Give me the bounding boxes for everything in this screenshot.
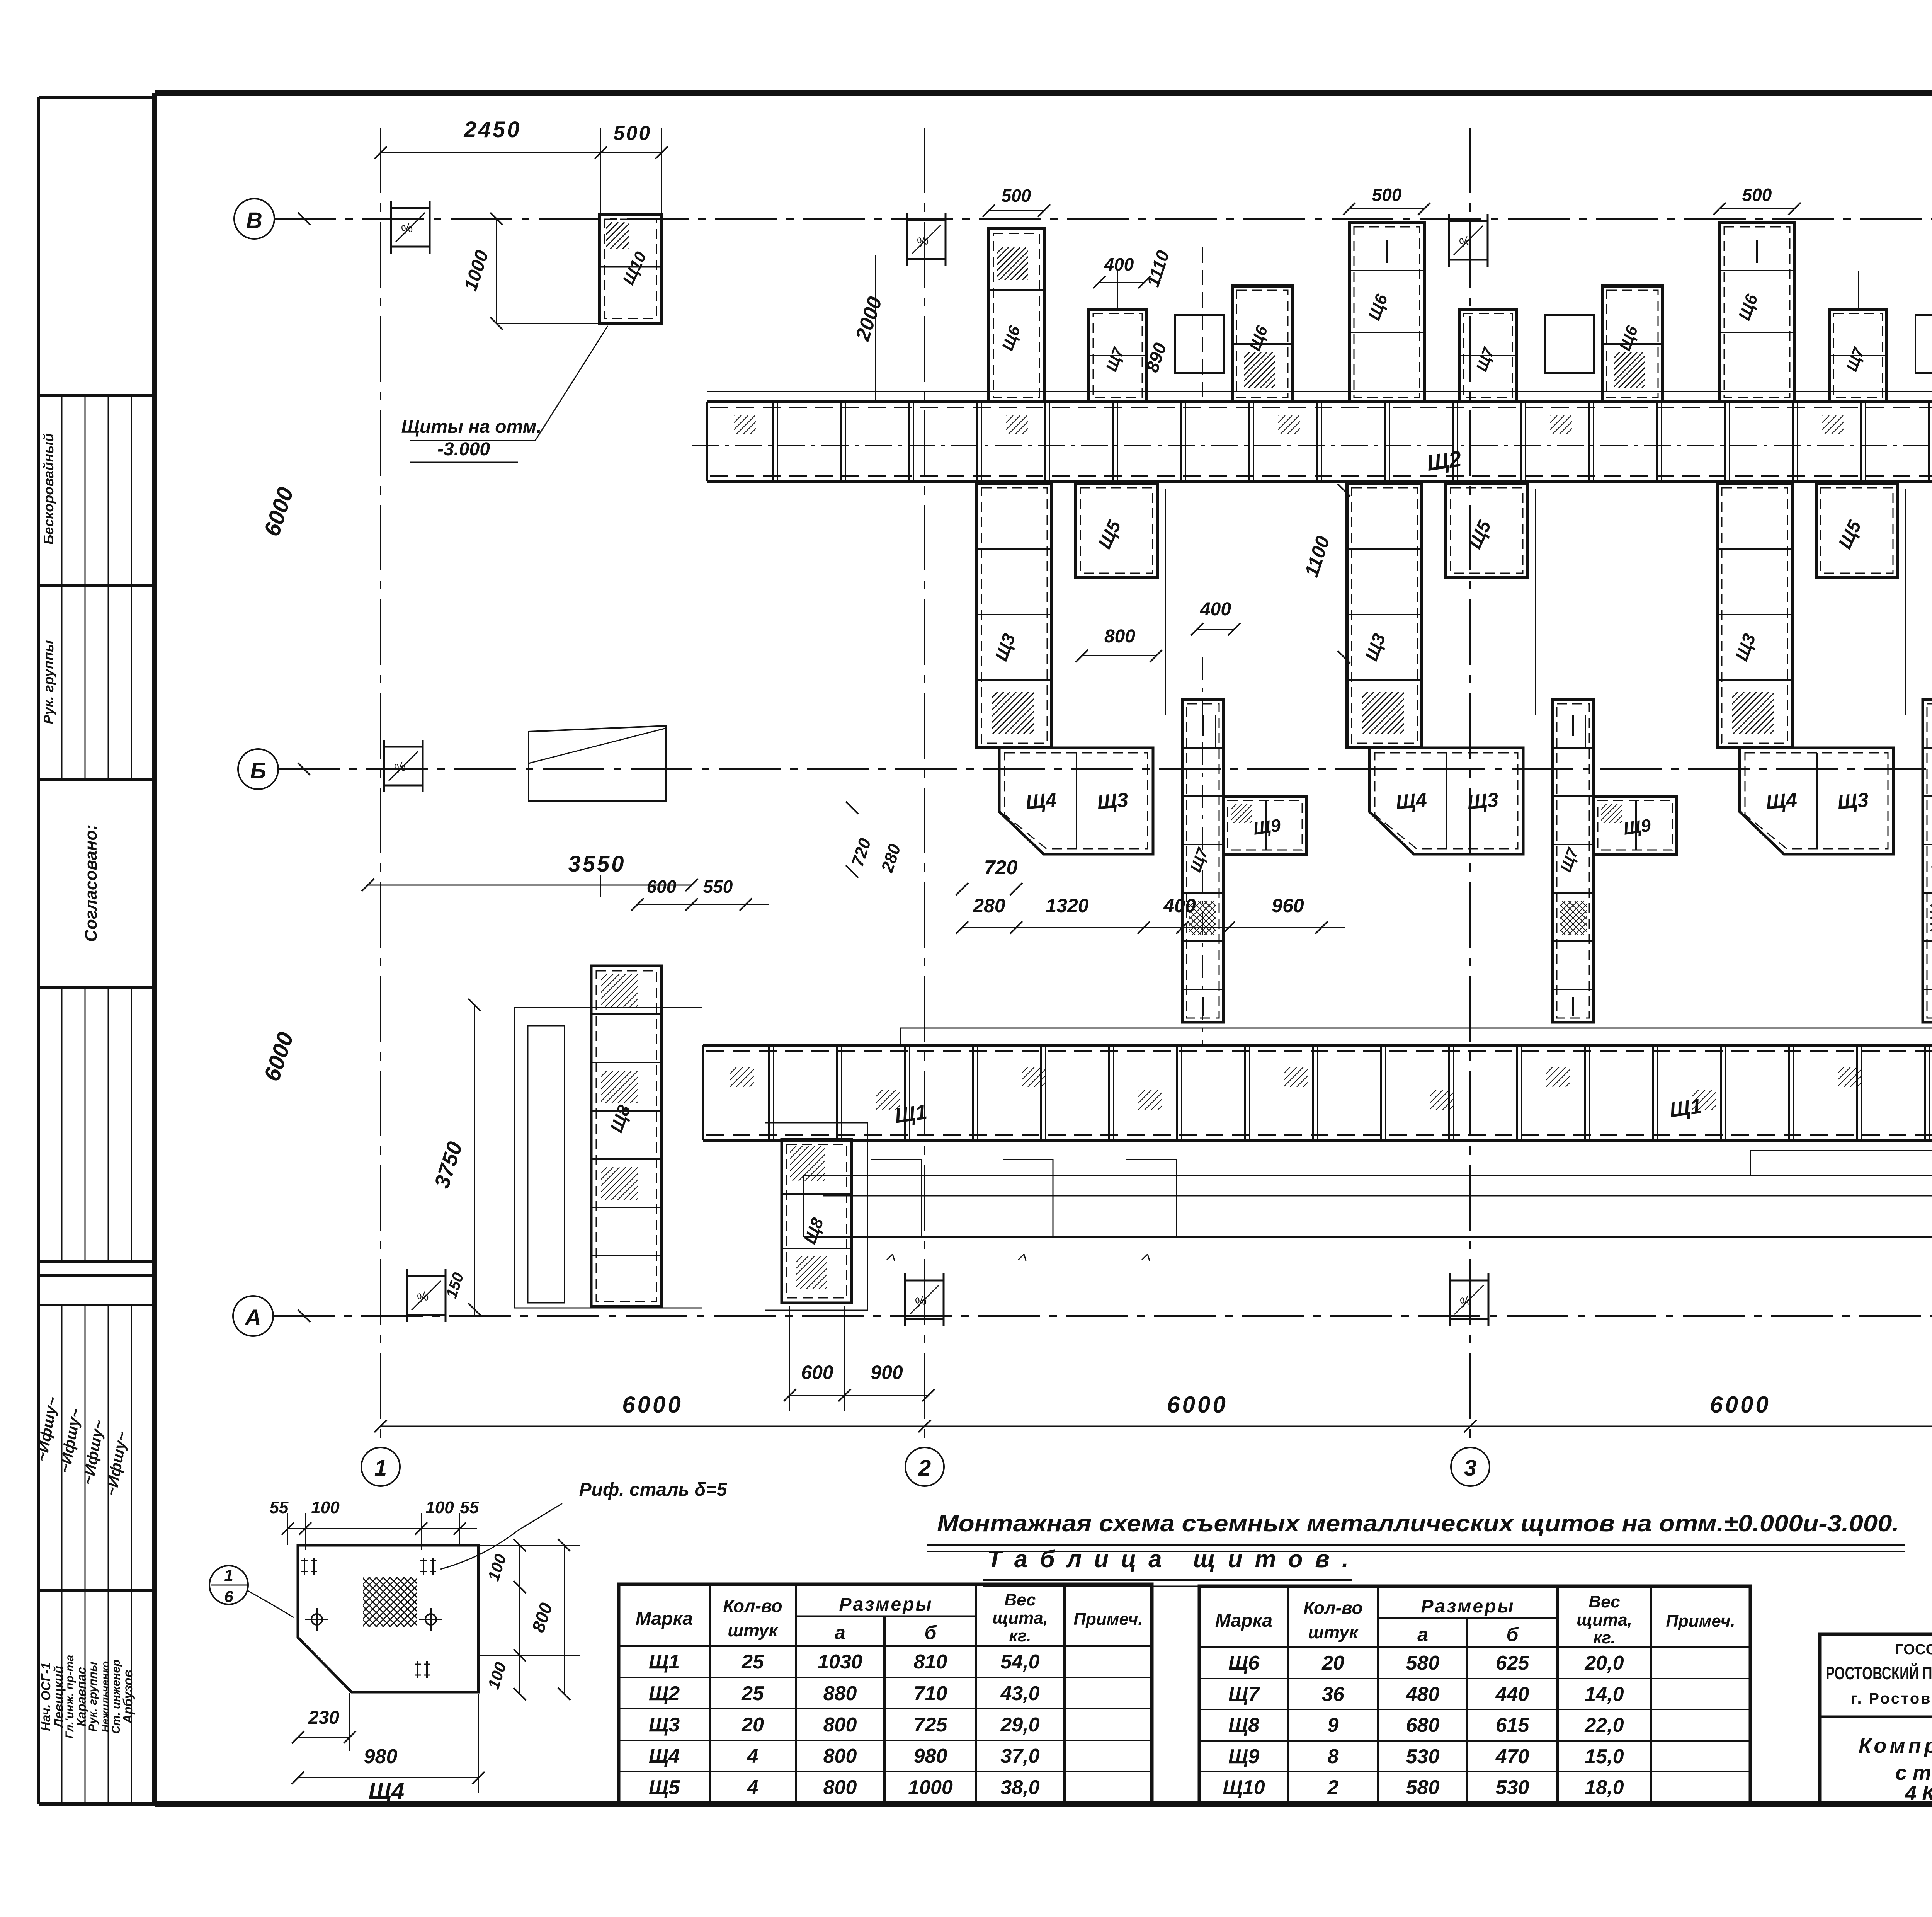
panel Щ7 top m3	[1829, 309, 1887, 402]
svg-text:18,0: 18,0	[1585, 1776, 1624, 1799]
svg-text:38,0: 38,0	[1000, 1776, 1039, 1799]
svg-text:Щ8: Щ8	[1228, 1714, 1259, 1737]
svg-text:6000: 6000	[1167, 1392, 1228, 1418]
svg-text:1000: 1000	[908, 1776, 953, 1799]
svg-text:Щ2: Щ2	[649, 1682, 680, 1705]
svg-text:980: 980	[914, 1745, 947, 1767]
svg-text:Примеч.: Примеч.	[1073, 1610, 1143, 1629]
svg-text:440: 440	[1495, 1683, 1529, 1706]
svg-text:Щ4: Щ4	[369, 1778, 405, 1804]
svg-text:Щ5: Щ5	[649, 1776, 680, 1799]
module 3: panel box Щ4/Щ3	[1740, 748, 1893, 854]
axis line B (top)	[274, 218, 1932, 220]
tall panel Щ6 m2	[1719, 222, 1794, 402]
svg-text:55: 55	[270, 1498, 289, 1517]
svg-text:20: 20	[741, 1714, 764, 1736]
svg-text:Щ1: Щ1	[1668, 1095, 1703, 1122]
svg-text:615: 615	[1496, 1714, 1530, 1737]
svg-text:Размеры: Размеры	[1421, 1596, 1515, 1617]
svg-text:500: 500	[1372, 185, 1402, 205]
svg-text:б: б	[1507, 1624, 1519, 1645]
panel Щ7 top m1	[1089, 309, 1146, 402]
panel band Щ1	[703, 1044, 1932, 1047]
column markers row Б	[384, 746, 423, 748]
svg-text:15,0: 15,0	[1585, 1745, 1624, 1768]
svg-text:800: 800	[823, 1776, 857, 1799]
svg-text:550: 550	[703, 877, 733, 897]
svg-text:штук: штук	[1308, 1622, 1359, 1642]
svg-text:Щ7: Щ7	[1228, 1683, 1260, 1706]
module 1: panel Щ9	[1223, 796, 1306, 854]
svg-text:530: 530	[1406, 1745, 1440, 1768]
svg-text:Щ4: Щ4	[1395, 789, 1428, 814]
svg-text:625: 625	[1496, 1652, 1530, 1674]
svg-text:29,0: 29,0	[1000, 1714, 1039, 1736]
axis circle А	[233, 1296, 273, 1336]
panel Щ6 m2	[1602, 286, 1662, 402]
svg-text:400: 400	[1163, 895, 1196, 916]
left boundary outline	[515, 1008, 702, 1308]
dim 600 900 bottom left	[790, 1395, 929, 1396]
sheet outer frame	[155, 90, 1932, 96]
svg-text:880: 880	[823, 1682, 857, 1705]
title block	[1820, 1634, 1932, 1803]
module 2: panel Щ5	[1446, 483, 1527, 578]
module 1: panel Щ5	[1076, 483, 1157, 578]
panel Щ7 top m2	[1459, 309, 1517, 402]
dim 600 550	[638, 904, 769, 905]
module 2: panel box Щ4/Щ3	[1369, 748, 1523, 854]
svg-text:Щ9: Щ9	[1228, 1745, 1259, 1768]
axis circle В	[234, 199, 274, 239]
svg-text:600: 600	[647, 877, 677, 897]
svg-text:Щ10: Щ10	[1223, 1776, 1265, 1799]
svg-text:щита,: щита,	[1577, 1611, 1632, 1629]
svg-text:Бескоровайный: Бескоровайный	[41, 433, 56, 545]
module 3: tower Щ7	[1923, 700, 1932, 1022]
svg-text:480: 480	[1406, 1683, 1440, 1706]
svg-text:25: 25	[741, 1682, 764, 1705]
svg-text:1030: 1030	[818, 1651, 862, 1673]
svg-text:кг.: кг.	[1593, 1628, 1615, 1647]
svg-text:54,0: 54,0	[1000, 1651, 1039, 1673]
panel Щ6 m1	[1232, 286, 1292, 402]
svg-text:280: 280	[973, 895, 1005, 916]
svg-text:Левицкий: Левицкий	[51, 1666, 66, 1728]
svg-text:Монтажная схема съемных мета: Монтажная схема съемных металлических щи…	[937, 1510, 1899, 1536]
svg-text:-3.000: -3.000	[437, 439, 490, 460]
svg-text:Арбузов: Арбузов	[121, 1670, 135, 1724]
svg-text:Рук. группы: Рук. группы	[41, 640, 56, 724]
svg-text:100: 100	[425, 1498, 454, 1517]
svg-text:20,0: 20,0	[1584, 1652, 1624, 1674]
block m2	[1545, 315, 1594, 373]
wall line above Щ1 band	[900, 1028, 1932, 1029]
detail dims bottom	[298, 1737, 350, 1738]
svg-text:400: 400	[1104, 254, 1134, 274]
svg-text:9: 9	[1328, 1714, 1339, 1737]
detail Щ4 plate	[298, 1545, 478, 1692]
svg-text:2: 2	[918, 1456, 931, 1481]
svg-text:500: 500	[614, 122, 652, 145]
svg-text:Марка: Марка	[1215, 1611, 1272, 1631]
svg-text:725: 725	[914, 1714, 948, 1736]
block m1	[1175, 315, 1224, 373]
svg-text:Щ2: Щ2	[1425, 446, 1463, 476]
block m3	[1915, 315, 1932, 373]
table 2	[1199, 1586, 1750, 1803]
svg-text:8: 8	[1328, 1745, 1339, 1768]
dim 2450/500 top-left	[381, 152, 662, 153]
svg-text:4: 4	[747, 1776, 759, 1799]
module 1: room outline	[1165, 489, 1347, 715]
svg-text:Щ4: Щ4	[1765, 789, 1798, 814]
detail dims top	[288, 1528, 477, 1529]
svg-text:В: В	[246, 208, 262, 233]
svg-text:500: 500	[1742, 185, 1772, 205]
svg-text:530: 530	[1496, 1776, 1529, 1799]
svg-text:Щ6: Щ6	[1228, 1652, 1260, 1674]
svg-text:6000: 6000	[1710, 1392, 1770, 1418]
vertical grid lines	[380, 128, 381, 1446]
svg-text:3550: 3550	[568, 851, 626, 877]
module 1: tower Щ7	[1182, 700, 1223, 1022]
svg-text:Щ1: Щ1	[893, 1100, 929, 1128]
svg-text:Щиты на отм.: Щиты на отм.	[401, 417, 541, 437]
svg-text:900: 900	[871, 1362, 903, 1383]
svg-text:720: 720	[984, 856, 1018, 879]
svg-text:100: 100	[311, 1498, 340, 1517]
svg-text:кг.: кг.	[1009, 1626, 1031, 1645]
svg-text:Компрессорная: Компрессорная	[1859, 1734, 1932, 1757]
module 2: tower Щ7	[1553, 700, 1594, 1022]
svg-text:800: 800	[823, 1714, 857, 1736]
svg-text:14,0: 14,0	[1585, 1683, 1624, 1706]
svg-text:a: a	[1417, 1624, 1428, 1645]
svg-text:Щ3: Щ3	[1837, 789, 1869, 814]
axis circle Б	[238, 749, 278, 789]
small foundation rects	[871, 1159, 922, 1237]
axis line Б (middle)	[278, 768, 1932, 770]
panel band Щ2	[707, 400, 1932, 403]
inner narrow rect	[528, 1026, 565, 1303]
svg-text:4: 4	[747, 1745, 759, 1767]
svg-text:580: 580	[1406, 1652, 1440, 1674]
svg-text:Б: Б	[250, 758, 266, 783]
svg-text:Нежильченко: Нежильченко	[99, 1661, 111, 1733]
parallelogram flag	[529, 726, 666, 801]
svg-text:230: 230	[308, 1708, 339, 1728]
svg-text:470: 470	[1495, 1745, 1529, 1768]
svg-text:Вес: Вес	[1004, 1590, 1036, 1609]
module 1: panel box Щ4/Щ3	[999, 748, 1153, 854]
svg-text:Щ3: Щ3	[1096, 789, 1129, 814]
module 2: panel Щ9	[1594, 796, 1677, 854]
svg-text:800: 800	[1104, 626, 1135, 647]
svg-text:6000: 6000	[622, 1392, 683, 1418]
svg-text:Щ4: Щ4	[649, 1745, 680, 1767]
svg-text:20: 20	[1321, 1652, 1344, 1674]
svg-text:710: 710	[914, 1682, 947, 1705]
lower long bar	[804, 1176, 1932, 1237]
svg-text:960: 960	[1272, 895, 1304, 916]
svg-text:a: a	[835, 1622, 845, 1643]
column markers row В	[391, 207, 430, 209]
module 1: panel stack Щ3	[977, 483, 1052, 748]
svg-text:36: 36	[1322, 1683, 1345, 1706]
module 2: panel stack Щ3	[1347, 483, 1422, 748]
module 3: panel stack Щ3	[1717, 483, 1792, 748]
dim 6000 vertical В-Б	[304, 219, 304, 1316]
svg-text:400: 400	[1200, 599, 1231, 620]
svg-text:Щ3: Щ3	[1466, 789, 1499, 814]
svg-text:Вес: Вес	[1588, 1592, 1620, 1611]
svg-text:37,0: 37,0	[1000, 1745, 1039, 1767]
svg-text:1: 1	[224, 1566, 233, 1584]
svg-text:1320: 1320	[1046, 895, 1088, 916]
panel Щ10	[599, 214, 662, 323]
svg-text:6: 6	[224, 1587, 233, 1605]
svg-text:Марка: Марка	[636, 1609, 693, 1629]
tall panel Щ6 m1	[1349, 222, 1424, 402]
svg-text:810: 810	[914, 1651, 947, 1673]
svg-text:680: 680	[1406, 1714, 1440, 1737]
svg-text:Согласовано:: Согласовано:	[82, 824, 100, 942]
bottom dimension chain	[381, 1426, 1932, 1427]
detail circle 1/6	[209, 1566, 248, 1604]
dim 3550	[368, 885, 692, 886]
bolts	[305, 1619, 328, 1620]
svg-text:станция: станция	[1895, 1761, 1932, 1784]
svg-text:Щ1: Щ1	[649, 1651, 680, 1673]
svg-text:А: А	[244, 1305, 261, 1330]
svg-text:500: 500	[1002, 186, 1031, 206]
stamp column	[37, 97, 40, 1804]
detail dims right	[519, 1545, 520, 1694]
svg-text:22,0: 22,0	[1584, 1714, 1624, 1737]
svg-text:Каравпас: Каравпас	[74, 1667, 88, 1726]
svg-text:43,0: 43,0	[1000, 1682, 1039, 1705]
svg-text:55: 55	[460, 1498, 479, 1517]
svg-text:600: 600	[801, 1362, 833, 1383]
svg-text:25: 25	[741, 1651, 764, 1673]
svg-text:Нач. ОСГ-1: Нач. ОСГ-1	[39, 1662, 53, 1731]
dim 1000	[496, 219, 497, 323]
svg-text:Щ3: Щ3	[649, 1714, 680, 1736]
module 2: room outline	[1536, 489, 1717, 715]
svg-text:2: 2	[1327, 1776, 1339, 1799]
svg-text:щита,: щита,	[992, 1609, 1048, 1628]
svg-text:Щ9: Щ9	[1252, 815, 1282, 838]
table 1	[619, 1584, 1152, 1803]
svg-text:Примеч.: Примеч.	[1666, 1612, 1735, 1631]
svg-text:Кол-во: Кол-во	[1303, 1598, 1362, 1618]
wall line above band Щ2	[707, 391, 1932, 392]
svg-text:2450: 2450	[463, 117, 521, 142]
module 3: room outline	[1906, 489, 1932, 715]
svg-text:б: б	[925, 1622, 937, 1643]
panel column Щ8 B	[782, 1139, 852, 1303]
svg-text:Риф. сталь δ=5: Риф. сталь δ=5	[579, 1479, 728, 1500]
svg-text:штук: штук	[728, 1620, 779, 1640]
svg-text:580: 580	[1406, 1776, 1440, 1799]
svg-text:Щ9: Щ9	[1622, 815, 1652, 838]
svg-text:980: 980	[364, 1745, 398, 1768]
svg-text:Размеры: Размеры	[839, 1594, 933, 1615]
panel column Щ8 A	[591, 966, 662, 1306]
svg-text:РОСТОВСКИЙ ПРОМСТРОЙНИИПРОЕКТ: РОСТОВСКИЙ ПРОМСТРОЙНИИПРОЕКТ	[1826, 1663, 1932, 1683]
module 3: panel Щ5	[1816, 483, 1898, 578]
svg-text:Щ4: Щ4	[1025, 789, 1058, 814]
outline around Щ8 B	[765, 1123, 867, 1310]
svg-text:3: 3	[1464, 1456, 1476, 1481]
svg-text:1: 1	[374, 1456, 387, 1481]
svg-text:Кол-во: Кол-во	[723, 1596, 782, 1616]
dim 3750 left	[474, 1005, 475, 1316]
left end tall tower Щ6	[989, 229, 1044, 402]
axis line A (bottom)	[273, 1315, 1932, 1317]
column markers row А	[407, 1275, 446, 1277]
svg-text:800: 800	[823, 1745, 857, 1767]
svg-text:ГОССТРОЙ СССР: ГОССТРОЙ СССР	[1895, 1640, 1932, 1658]
